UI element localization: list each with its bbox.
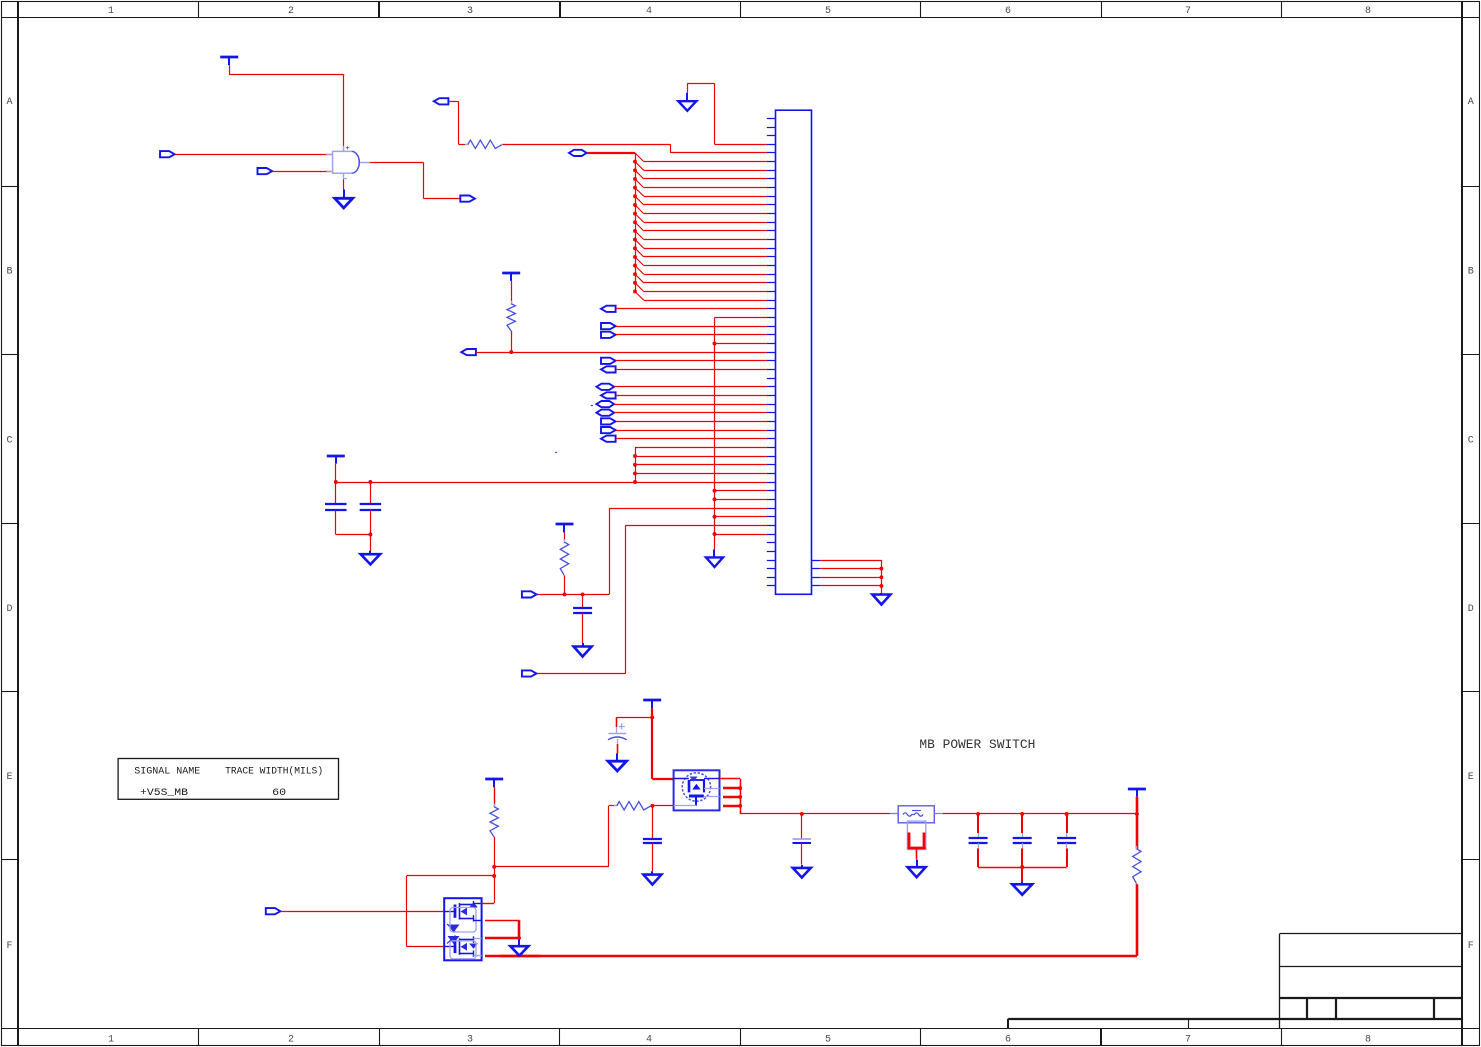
wire P3R to J1 — [616, 326, 767, 328]
node funnel-1 j5 — [633, 160, 637, 164]
wire funnel-2 vertical — [635, 447, 637, 482]
node funnel-1 j18 — [633, 272, 637, 276]
wire Q2 mid pins — [485, 920, 519, 938]
wire funnel-2 branch pin41 — [635, 464, 767, 466]
wire pin46 net vertical — [537, 508, 767, 595]
port P6L — [601, 366, 616, 372]
node C8 tap — [650, 715, 654, 719]
wire funnel-1 branch pin18 — [635, 257, 767, 266]
port P2L — [601, 306, 616, 312]
ground G11 — [1012, 881, 1032, 895]
wire R1 to J1 pin5 — [503, 144, 767, 153]
port P8L — [601, 392, 616, 398]
node R4 a — [492, 865, 496, 869]
node R6 out — [650, 804, 654, 808]
power bar VCC2 — [502, 273, 520, 281]
node C3 top — [581, 592, 585, 596]
power bar V5S3 — [485, 779, 503, 787]
capacitor C4 — [643, 839, 662, 843]
capacitor C7 — [1057, 838, 1076, 843]
wire G2 to J1 pin4 — [687, 83, 767, 144]
svg-text:MB POWER SWITCH: MB POWER SWITCH — [919, 737, 1035, 752]
wire bus branch pin44 — [715, 490, 767, 492]
transistor Q2 dual — [444, 898, 481, 960]
resistor R4 — [490, 804, 498, 840]
wire C8 to ground — [617, 744, 619, 753]
port P12R — [601, 427, 616, 433]
wire funnel-1 branch pin21 — [635, 283, 767, 292]
wire C3 top lead — [582, 594, 584, 608]
wire P5R to J1 — [616, 360, 767, 362]
svg-text:8: 8 — [1365, 1035, 1371, 1046]
resistor R5 — [1133, 846, 1141, 887]
node caps bottom — [1020, 865, 1024, 869]
ground G5 — [574, 643, 592, 657]
node funnel-2 j40 — [633, 463, 637, 467]
node C2 top — [368, 480, 372, 484]
wire R4 to Q2 pin — [494, 837, 496, 903]
wire C9 top lead — [801, 814, 803, 839]
port P5 — [434, 98, 449, 104]
wire P8L to J1 — [616, 395, 767, 397]
svg-text:60: 60 — [272, 787, 286, 799]
node bus j48 — [713, 532, 717, 536]
svg-text:3: 3 — [467, 1035, 473, 1046]
wire VCC1 to U1 V+ — [229, 65, 344, 146]
wire R2 to pin27 net — [511, 331, 513, 352]
wire C7 top lead — [1066, 814, 1069, 839]
svg-text:D: D — [6, 604, 12, 615]
node funnel-1 j11 — [633, 212, 637, 216]
svg-text:TRACE WIDTH(MILS): TRACE WIDTH(MILS) — [225, 766, 323, 778]
wire C5 bottom lead — [977, 843, 980, 867]
ground G9 — [793, 865, 811, 878]
capacitor C1 — [325, 504, 347, 510]
node funnel-1 j7 — [633, 177, 637, 181]
wire Q2 top pin to R4 — [482, 903, 495, 905]
current sense S1 — [907, 821, 925, 859]
power bar V5S1 — [643, 700, 661, 708]
power bar V5S2 — [1128, 789, 1146, 797]
svg-text:E: E — [6, 772, 12, 783]
node Q1 d2 — [738, 795, 742, 799]
node Q1 d1 — [738, 786, 742, 790]
svg-text:B: B — [6, 267, 12, 278]
node bus j44 — [713, 497, 717, 501]
wire C1 bottom lead — [335, 511, 337, 535]
node rail right end — [1135, 812, 1139, 816]
node funnel-1 j13 — [633, 229, 637, 233]
svg-text:+: + — [345, 145, 350, 153]
wire R6 to Q1 gate — [651, 805, 674, 807]
wire P5 to R1 — [449, 101, 468, 144]
wire IN1 to U1 + — [175, 154, 333, 156]
svg-text:6: 6 — [1005, 1035, 1011, 1046]
wire C2 bottom lead — [370, 511, 372, 535]
node funnel-1 j20 — [633, 290, 637, 294]
svg-text:2: 2 — [288, 1035, 294, 1046]
port P11R — [601, 418, 616, 424]
svg-text:SIGNAL NAME: SIGNAL NAME — [134, 766, 200, 778]
ground G3 bus — [706, 549, 723, 567]
svg-text:4: 4 — [646, 1035, 652, 1046]
wire loop to Q2 gate2 — [407, 876, 495, 947]
port IN1 — [160, 151, 175, 157]
node funnel-2 j41 — [633, 471, 637, 475]
svg-text:D: D — [1468, 604, 1474, 615]
wire C6 bottom lead — [1021, 843, 1024, 867]
wire funnel-2 branch pin42 — [635, 473, 767, 475]
svg-text:2: 2 — [288, 6, 294, 17]
port P4 — [522, 670, 537, 676]
node Q1 d3 — [738, 804, 742, 808]
svg-text:E: E — [1468, 772, 1474, 783]
wire P12R to J1 — [616, 430, 767, 432]
resistor R3 — [560, 539, 568, 579]
svg-text:5: 5 — [825, 1035, 831, 1046]
capacitor C8 polarized — [608, 723, 627, 744]
wire V5S2 to R5 — [1136, 797, 1139, 849]
wire funnel-1 branch pin8 — [635, 170, 767, 179]
capacitor C6 — [1013, 838, 1032, 843]
wire C7 bottom lead — [1066, 843, 1069, 867]
port OUT1 — [460, 196, 475, 202]
node funnel-1 j12 — [633, 220, 637, 224]
wire IN2 to U1 - — [273, 171, 333, 173]
wire P10H to J1 — [615, 412, 767, 414]
stray dash — [591, 405, 593, 407]
wire P7H to J1 — [615, 386, 767, 388]
node funnel-2 j39 — [633, 454, 637, 458]
wire V5S1 down to Q1 — [652, 708, 674, 779]
svg-text:C: C — [1468, 436, 1474, 447]
ground G2 top — [678, 93, 696, 111]
node Q2 mid — [518, 936, 521, 939]
wire R4chain to RH — [494, 806, 617, 867]
node C9 tap — [800, 812, 804, 816]
capacitor C9 — [793, 839, 812, 843]
wire bus branch pin47 — [715, 516, 767, 518]
svg-text:7: 7 — [1185, 1035, 1191, 1046]
wire P2 to J1 pin28 — [476, 352, 767, 354]
wire caps to J1 pin43 — [336, 482, 767, 484]
node funnel-1 j15 — [633, 246, 637, 250]
ground G6 right — [872, 593, 890, 605]
wire bus branch pin49 — [715, 534, 767, 536]
node R4 b — [492, 874, 496, 878]
ground U1 — [335, 190, 353, 208]
connector J1 body — [776, 110, 812, 594]
wire funnel-2 branch pin40 — [635, 456, 767, 458]
wire caps to ground — [1021, 867, 1023, 881]
node funnel-1 j9 — [633, 194, 637, 198]
ground G8 — [643, 871, 661, 884]
svg-text:B: B — [1468, 267, 1474, 278]
svg-text:6: 6 — [1005, 6, 1011, 17]
svg-text:F: F — [1468, 941, 1474, 952]
node funnel-1 j19 — [633, 281, 637, 285]
wire P2L to J1 — [616, 308, 767, 310]
wire R5 to bottom rail — [485, 884, 1137, 956]
resistor R2 — [507, 301, 515, 334]
svg-text:A: A — [1468, 97, 1474, 108]
wire funnel-1 vertical — [635, 153, 637, 292]
wire funnel-1 branch pin20 — [635, 274, 767, 283]
ground G4 caps — [361, 551, 381, 565]
svg-text:4: 4 — [646, 6, 652, 17]
wire funnel-1 branch pin14 — [635, 222, 767, 231]
wire funnel-1 branch pin16 — [635, 240, 767, 249]
connector J1 right pins — [812, 561, 821, 586]
node C5 tap — [976, 812, 980, 816]
wire C5 top lead — [977, 814, 980, 839]
wire P9 to Q2 gate1 — [281, 911, 444, 913]
wire tap to C8 — [616, 717, 652, 727]
wire R3 to net — [564, 576, 566, 595]
wire P9H to J1 — [615, 404, 767, 406]
svg-text:7: 7 — [1185, 6, 1191, 17]
svg-text:C: C — [6, 436, 12, 447]
port P4R — [601, 332, 616, 338]
wire funnel-1 branch pin12 — [635, 205, 767, 214]
node C1 top — [334, 480, 338, 484]
wire P11R to J1 — [616, 421, 767, 423]
wire funnel-1 branch pin9 — [635, 179, 767, 188]
wire C2 top lead — [370, 482, 372, 504]
wire funnel-1 branch pin17 — [635, 248, 767, 257]
wire bus branch pin45 — [715, 499, 767, 501]
wire P13L to J1 — [616, 438, 767, 440]
node funnel-1 j14 — [633, 238, 637, 242]
capacitor C3 — [573, 608, 592, 613]
port P1 — [569, 150, 587, 156]
wire Q1 drain pins — [720, 779, 802, 814]
node R3 — [563, 592, 567, 596]
resistor R1 — [465, 140, 506, 148]
wire funnel-1 branch pin6 — [635, 153, 767, 162]
wire funnel-1 branch pin15 — [635, 231, 767, 240]
node right j52 — [879, 567, 883, 571]
wire C6 top lead — [1021, 814, 1024, 839]
wire funnel-1 branch pin10 — [635, 188, 767, 197]
port P10H — [597, 410, 615, 416]
port IN2 — [258, 168, 273, 174]
wire main rail — [802, 813, 891, 815]
power bar VCC1 — [220, 57, 238, 65]
svg-text:8: 8 — [1365, 6, 1371, 17]
wire V5S3 to R4 — [494, 787, 496, 807]
wire pin48 net — [537, 525, 767, 673]
table signal-trace-width — [118, 759, 338, 800]
wire U1 V- to ground — [343, 179, 345, 189]
wire C4 to ground — [652, 843, 654, 871]
svg-text:1: 1 — [108, 1035, 114, 1046]
wire bus branch pin27 — [715, 343, 767, 345]
wire C4 top lead — [652, 806, 654, 839]
svg-text:3: 3 — [467, 6, 473, 17]
port P13L — [601, 436, 616, 442]
wire U1 out to OUT1 — [370, 163, 461, 199]
ground G12 — [510, 939, 528, 955]
power bar VCC4 — [556, 524, 574, 532]
port P9 — [266, 908, 281, 914]
wire bus vertical — [715, 318, 767, 550]
node bus j46 — [713, 515, 717, 519]
node funnel-1 j6 — [633, 168, 637, 172]
wire VCC3 to node — [335, 464, 337, 482]
wire funnel-1 branch pin22 — [635, 292, 767, 301]
node bus j43 — [713, 489, 717, 493]
wire funnel-1 branch pin19 — [635, 266, 767, 275]
fuse F1 — [890, 806, 942, 823]
capacitor C5 — [969, 838, 988, 843]
svg-text:1: 1 — [108, 6, 114, 17]
wire caps bottom bar — [978, 867, 1067, 869]
svg-text:F: F — [6, 941, 12, 952]
wire C1 top lead — [335, 482, 337, 504]
node C6 tap — [1020, 812, 1024, 816]
node bus j26 — [713, 342, 717, 346]
wire caps to ground — [370, 535, 372, 552]
wire funnel-2 top branch — [635, 447, 767, 449]
wire VCC4 to R3 — [564, 532, 566, 542]
power bar VCC3 — [327, 456, 345, 464]
wire funnel-1 branch pin11 — [635, 196, 767, 205]
port P5R — [601, 358, 616, 364]
port P7H — [597, 384, 615, 390]
svg-text:+V5S_MB: +V5S_MB — [140, 787, 188, 799]
node right j53 — [879, 575, 883, 579]
wire VCC2 to R2 — [511, 281, 513, 304]
wire P6L to J1 — [616, 369, 767, 371]
wire P1 bus head — [587, 152, 635, 154]
svg-text:5: 5 — [825, 6, 831, 17]
node funnel-1 j16 — [633, 255, 637, 259]
op-amp U1 — [327, 145, 370, 184]
wire P4R to J1 — [616, 334, 767, 336]
transistor Q1 — [674, 770, 720, 810]
port P3R — [601, 323, 616, 329]
connector J1 left pins — [767, 119, 776, 586]
wire right pins to ground — [820, 560, 881, 593]
wire C1-C2 bottom — [336, 534, 371, 536]
node funnel-1 j8 — [633, 186, 637, 190]
wire funnel-1 branch pin7 — [635, 162, 767, 171]
wire funnel-1 branch pin13 — [635, 214, 767, 223]
node funnel-2 bottom — [633, 480, 637, 484]
stray dot — [555, 452, 557, 454]
wire C3 to ground — [582, 613, 584, 643]
node C7 tap — [1065, 812, 1069, 816]
resistor R6 — [614, 802, 654, 810]
node C2 bottom — [368, 533, 372, 537]
capacitor C2 — [360, 504, 382, 510]
wire C9 to ground — [801, 843, 803, 865]
node right j54 — [879, 584, 883, 588]
ground G7 — [608, 753, 627, 771]
node funnel-1 j10 — [633, 203, 637, 207]
wire rail through G12 — [500, 955, 540, 958]
port P9H — [597, 401, 615, 407]
ground G10 — [908, 860, 926, 878]
port P3 — [522, 591, 537, 597]
svg-text:A: A — [6, 97, 12, 108]
node R2 junction — [509, 350, 513, 354]
port P2 — [461, 349, 476, 355]
node funnel-1 j17 — [633, 264, 637, 268]
wire rail right — [943, 813, 1137, 815]
